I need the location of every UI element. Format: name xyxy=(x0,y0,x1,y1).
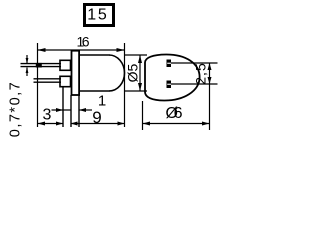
svg-text:1: 1 xyxy=(98,92,106,109)
LED body (side view) xyxy=(80,55,125,91)
lead square top (front view) xyxy=(167,60,172,68)
figure number box 15 xyxy=(85,5,114,26)
lead anchor block top xyxy=(60,60,71,70)
lead top (side view) xyxy=(21,64,62,67)
svg-text:0,7*0,7: 0,7*0,7 xyxy=(8,81,24,137)
lead bottom (side view) xyxy=(34,79,62,82)
dimension row lower (9 span) xyxy=(71,122,125,126)
dimension Ø5 line xyxy=(138,55,142,91)
svg-text:Ø5: Ø5 xyxy=(124,63,140,82)
dome xyxy=(109,55,125,91)
lead solid segment at tick xyxy=(36,63,42,68)
svg-text:16: 16 xyxy=(77,34,90,50)
LED front view outline xyxy=(145,54,200,100)
dimension 2,5 extension lines xyxy=(171,62,218,64)
svg-text:15: 15 xyxy=(87,6,107,23)
dimension 16 line xyxy=(38,48,125,52)
lead anchor block bottom xyxy=(60,76,71,86)
dimension Ø5 extension lines xyxy=(125,54,148,56)
flange (side view) xyxy=(72,51,80,95)
extension line left (lead tick) xyxy=(37,43,39,127)
dimension Ø6 extension line left xyxy=(142,101,144,130)
extension line right (dome tip) xyxy=(124,43,126,127)
flange extension lines down xyxy=(70,95,72,127)
extension line at lead anchor xyxy=(62,87,64,127)
dimension 0,7 line xyxy=(26,55,29,76)
dimension Ø6 line xyxy=(143,122,210,126)
dimension row upper (3 / 9 leaders) xyxy=(52,108,93,112)
svg-text:2,5: 2,5 xyxy=(193,62,209,84)
dimension 2,5 line xyxy=(208,63,212,130)
svg-text:3: 3 xyxy=(43,107,52,124)
svg-text:Ø6: Ø6 xyxy=(166,105,183,122)
lead square bottom (front view) xyxy=(167,81,172,89)
dimension row lower (3 span) xyxy=(38,122,64,126)
svg-text:9: 9 xyxy=(92,108,101,127)
